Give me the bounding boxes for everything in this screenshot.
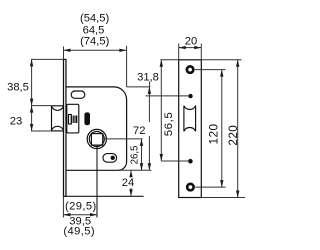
- spindle vertical ext: [96, 145, 98, 217]
- dim 29,5/39,5 line: [63, 214, 97, 216]
- svg-text:120: 120: [207, 124, 221, 145]
- dim 20 line: [179, 47, 202, 49]
- svg-text:26,5: 26,5: [130, 146, 141, 165]
- case top ext right: [127, 86, 151, 88]
- latch top ext: [31, 105, 52, 107]
- lower dot leader: [161, 160, 188, 162]
- dim 72 line upper: [148, 87, 150, 122]
- latch bottom ext: [31, 130, 52, 132]
- svg-text:220: 220: [226, 125, 240, 146]
- dim 24 line lower: [130, 188, 132, 196]
- upper dot leader: [146, 95, 189, 97]
- dim 23 line: [31, 106, 33, 131]
- arrow 56,5 bottom: [160, 154, 163, 161]
- svg-text:72: 72: [133, 125, 145, 137]
- arrow 38,5 bottom: [30, 99, 33, 106]
- dimension lines group: [31, 44, 245, 218]
- svg-text:31,8: 31,8: [137, 72, 159, 84]
- arrow 120 top: [220, 70, 223, 77]
- dim 31,8 line: [149, 82, 151, 87]
- dim 56,5 line: [160, 60, 162, 161]
- latch bolt tail in case: [67, 104, 79, 133]
- arrow 26,5 bottom: [140, 163, 143, 170]
- svg-text:20: 20: [185, 35, 197, 47]
- dim 26,5 line: [141, 139, 143, 170]
- upper hole leader: [195, 69, 226, 71]
- 220 bottom ext: [201, 197, 245, 199]
- front view faceplate: [179, 60, 202, 198]
- spindle leader: [103, 138, 143, 140]
- arrow 23 bottom: [30, 124, 33, 131]
- svg-text:(29,5): (29,5): [65, 201, 97, 213]
- dim 24 line upper: [130, 170, 132, 176]
- dim 220 line: [237, 60, 239, 198]
- arrow 29,5 left: [63, 213, 70, 216]
- lower hole leader: [195, 186, 225, 188]
- lower center dot: [188, 159, 193, 164]
- 220 top ext: [201, 59, 241, 61]
- case bottom ext right: [119, 169, 151, 171]
- svg-text:24: 24: [122, 177, 134, 189]
- arrow 220 top: [236, 60, 239, 67]
- faceplate side view: [64, 59, 66, 196]
- ext line faceplate top left: [31, 58, 64, 60]
- latch bolt head: [52, 106, 64, 131]
- svg-text:(54,5): (54,5): [80, 13, 109, 25]
- arrow 64,5 left: [64, 49, 71, 52]
- arrow 26,5 top: [140, 139, 143, 146]
- arrow 29,5 right: [90, 213, 97, 216]
- dim 120 line: [221, 70, 223, 188]
- arrow 24 top: [129, 170, 132, 177]
- spindle hub: [87, 129, 106, 148]
- svg-text:23: 23: [10, 116, 22, 128]
- arrow 56,5 top: [160, 60, 163, 67]
- svg-text:38,5: 38,5: [7, 82, 29, 94]
- svg-text:(49,5): (49,5): [63, 226, 95, 238]
- lower oval with dot: [103, 154, 117, 163]
- arrow 24 bottom: [129, 189, 132, 196]
- svg-text:(74,5): (74,5): [80, 36, 109, 48]
- latch cutout front view: [184, 106, 196, 132]
- upper screw hole: [187, 66, 193, 72]
- arrow 23 top: [30, 106, 33, 113]
- top dim 64,5 line: [64, 49, 127, 51]
- lower screw hole: [187, 184, 193, 190]
- dimension texts: [7, 13, 240, 238]
- screw striped head: [71, 116, 78, 124]
- 20 left ext: [178, 44, 180, 60]
- top dim left ext: [63, 47, 65, 60]
- arrow 38,5 top: [30, 59, 33, 66]
- arrow 220 bottom: [236, 191, 239, 198]
- arrowheads: [30, 46, 240, 217]
- arrow 72 top: [148, 87, 151, 94]
- svg-text:56,5: 56,5: [163, 112, 175, 137]
- dim 38,5 line: [31, 59, 33, 105]
- dim 72 line lower: [148, 136, 150, 170]
- upper center dot: [188, 94, 192, 98]
- faceplate bottom left ext: [62, 196, 64, 217]
- screw bracket: [69, 115, 72, 125]
- arrow 20 left: [179, 46, 186, 49]
- black slot: [84, 112, 90, 125]
- arrow 72 bottom: [148, 163, 151, 170]
- arrow 64,5 right: [119, 49, 126, 52]
- top dim right ext: [126, 46, 128, 87]
- oval hole top: [71, 91, 85, 98]
- 20 right ext: [200, 44, 202, 60]
- lock case body outline: [66, 87, 126, 170]
- svg-text:64,5: 64,5: [83, 24, 105, 36]
- plate bottom ext line side: [66, 195, 144, 197]
- arrow 120 bottom: [220, 180, 223, 187]
- 56,5 top ext: [161, 59, 179, 61]
- arrow 20 right: [194, 46, 201, 49]
